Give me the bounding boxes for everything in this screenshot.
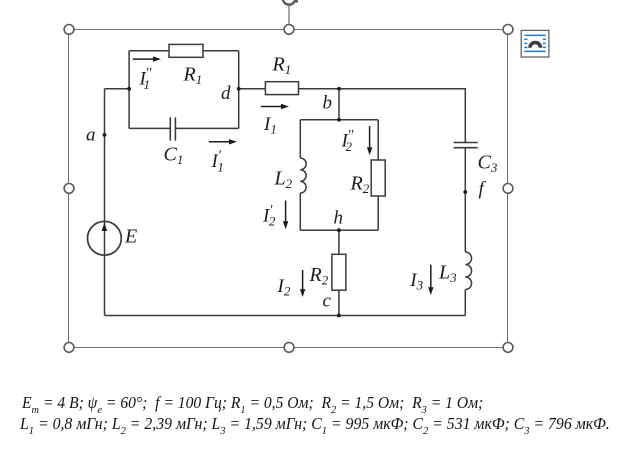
wire: L2 branch upper	[299, 120, 301, 158]
parameter text line 1	[22, 393, 483, 415]
resistor R1 (top of block1)	[169, 44, 203, 57]
handle top-left	[64, 25, 74, 35]
wire: block1 left edge	[128, 51, 130, 129]
svg-text:R2: R2	[350, 173, 370, 197]
svg-text:C1: C1	[164, 144, 184, 168]
wire: block1 top rail	[129, 50, 239, 52]
label L2	[274, 168, 293, 192]
label I2'	[262, 203, 276, 229]
label R1 (series)	[272, 54, 292, 78]
inductor L2	[300, 158, 306, 193]
inductor L3	[465, 252, 471, 290]
wire: L2 branch lower	[299, 193, 301, 230]
label R2 (bottom)	[309, 264, 329, 288]
layout options button arch	[528, 41, 542, 48]
handle left-mid	[64, 184, 74, 194]
svg-text:f: f	[479, 179, 487, 200]
svg-text:E: E	[124, 226, 137, 248]
label C1	[164, 144, 184, 168]
wire: b down to block2	[338, 89, 340, 120]
svg-text:R2: R2	[309, 264, 329, 288]
layout options button text lines	[524, 35, 546, 51]
parameter text line 2	[20, 414, 610, 436]
svg-text:R1: R1	[272, 54, 292, 78]
svg-text:R1: R1	[183, 64, 203, 88]
wire: block2 bottom rail	[300, 229, 378, 231]
label I2	[277, 276, 291, 299]
node b dot	[337, 87, 341, 91]
node dot at block1 left	[127, 87, 131, 91]
label R2 (block2)	[350, 173, 370, 197]
svg-text:C3: C3	[478, 152, 498, 176]
arrow I1' (below C1)	[209, 139, 237, 144]
layout options button box	[521, 30, 549, 57]
handle top-right	[503, 25, 513, 35]
capacitor C3 plates	[454, 143, 478, 148]
label a	[86, 125, 96, 146]
selection frame rectangle	[69, 30, 508, 348]
node f dot	[463, 190, 467, 194]
wire: block2 top rail	[300, 119, 378, 121]
svg-text:I2: I2	[277, 276, 291, 299]
svg-text:h: h	[334, 208, 344, 229]
arrow I2'' (down, right of label)	[367, 126, 372, 155]
node dot at block2 top	[337, 118, 341, 122]
svg-text:L2: L2	[274, 168, 293, 192]
label I1''	[139, 66, 153, 92]
wire: C3 to f to L3	[464, 148, 466, 252]
wire: L3 to bottom rail	[464, 290, 466, 316]
label I1'	[211, 149, 224, 175]
label I1	[263, 114, 277, 137]
handle right-mid	[503, 184, 513, 194]
wire: R2 branch of block2	[377, 120, 379, 230]
handle top-mid	[284, 25, 294, 35]
svg-text:I1: I1	[263, 114, 277, 137]
wire: h down to bottom rail	[338, 230, 340, 315]
label C3	[478, 152, 498, 176]
resistor R2 (block2)	[371, 160, 385, 196]
wire: block1 bottom rail left of C1	[129, 127, 170, 129]
node c dot	[337, 314, 341, 318]
svg-text:c: c	[323, 291, 332, 312]
label R1 (block1)	[183, 64, 203, 88]
arrow I3 (down, left of L3)	[428, 265, 433, 295]
svg-text:I′2: I′2	[262, 203, 276, 229]
wire: bottom rail	[105, 315, 466, 317]
resistor R2 (bottom)	[332, 254, 346, 290]
svg-text:I3: I3	[409, 270, 423, 293]
rotation handle stem	[288, 5, 290, 24]
label f	[479, 179, 487, 200]
rotation handle icon	[283, 0, 298, 5]
source E circle	[88, 221, 122, 255]
wire: block1 right edge	[238, 51, 240, 129]
handle bottom-mid	[284, 343, 294, 353]
source E arrow head	[102, 223, 108, 231]
label b	[323, 93, 333, 114]
handle bottom-right	[503, 343, 513, 353]
label I2''	[341, 128, 355, 154]
wire: left vertical a-branch	[104, 89, 106, 316]
wire: block1 bottom rail right of C1	[175, 127, 238, 129]
label h	[334, 208, 344, 229]
arrow I2 (down, left of bottom R2)	[300, 270, 305, 297]
label I3	[409, 270, 423, 293]
svg-text:I′′1: I′′1	[139, 66, 153, 92]
arrow I2' (down, left of h)	[283, 201, 288, 230]
arrow I1'' (top of block1)	[133, 56, 161, 61]
handle bottom-left	[64, 343, 74, 353]
label E	[124, 226, 137, 248]
node a dot	[103, 133, 107, 137]
label L3	[438, 261, 457, 285]
node d dot	[237, 87, 241, 91]
svg-text:b: b	[323, 93, 333, 114]
svg-text:I′′2: I′′2	[341, 128, 355, 154]
wire: d to series R1 to corner	[239, 89, 466, 143]
node h dot	[337, 228, 341, 232]
wire: a to block1 connector	[105, 88, 130, 90]
svg-text:I′1: I′1	[211, 149, 224, 175]
capacitor C1 plates	[170, 117, 175, 140]
label d	[221, 83, 231, 104]
svg-text:a: a	[86, 125, 96, 146]
svg-text:d: d	[221, 83, 231, 104]
svg-text:L3: L3	[438, 261, 457, 285]
arrow I1 (below series R1)	[261, 104, 289, 109]
resistor R1 (series)	[265, 82, 298, 95]
label c	[323, 291, 332, 312]
